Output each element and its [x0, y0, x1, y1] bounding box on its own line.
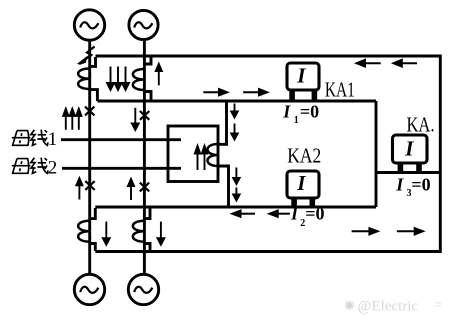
svg-text:1: 1 — [294, 115, 299, 126]
svg-text:@: @ — [358, 299, 372, 315]
svg-text:I: I — [282, 102, 291, 122]
svg-text:I: I — [404, 137, 414, 161]
svg-text:I: I — [290, 204, 299, 224]
svg-text:I: I — [395, 175, 404, 195]
svg-text:KA2: KA2 — [287, 144, 321, 168]
svg-text:=0: =0 — [305, 204, 324, 224]
svg-text:1: 1 — [48, 129, 58, 150]
svg-text:I: I — [296, 171, 306, 195]
svg-text:✺︎: ✺︎ — [344, 298, 355, 313]
svg-text:=: = — [435, 298, 443, 313]
svg-text:KA1: KA1 — [325, 77, 355, 101]
svg-text:Electric: Electric — [372, 299, 419, 315]
svg-text:KA.: KA. — [407, 113, 435, 137]
svg-text:=0: =0 — [411, 175, 430, 195]
svg-text:=0: =0 — [300, 102, 319, 122]
svg-text:I: I — [296, 64, 306, 88]
svg-text:2: 2 — [48, 158, 58, 179]
